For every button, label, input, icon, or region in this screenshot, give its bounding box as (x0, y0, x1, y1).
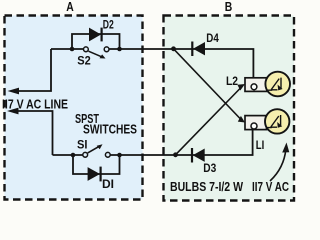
svg-text:A: A (66, 0, 74, 14)
svg-text:L2: L2 (226, 76, 238, 88)
svg-text:D4: D4 (206, 33, 219, 45)
svg-text:DI: DI (102, 179, 114, 191)
wire: top main wire (box A switch row through to box B lamp L2) (51, 49, 253, 78)
node junction: D1 branch left on bottom wire (71, 153, 76, 158)
svg-text:B: B (225, 0, 233, 14)
wire: diagonal from top node to lamp L1 (with arrowhead) (174, 49, 246, 123)
box A (dashed enclosure, light blue) (5, 16, 143, 200)
svg-text:II7 V AC LINE: II7 V AC LINE (2, 96, 68, 111)
switch S1 (SPST, lever up-right) (83, 144, 110, 157)
svg-text:S2: S2 (77, 55, 91, 67)
svg-text:SWITCHES: SWITCHES (83, 121, 137, 136)
label SPST SWITCHES (75, 111, 137, 137)
lamp L1 (base + bulb) (245, 109, 289, 133)
label BULBS 7-1/2 W 117 V AC (170, 179, 289, 194)
svg-text:LI: LI (256, 140, 264, 152)
node junction: box B top wire tap (171, 46, 176, 51)
diode D2 (anode left, cathode bar right) (89, 28, 102, 42)
diode D3 (cathode bar left, anode right) (192, 148, 205, 163)
node junction: D2 branch left on top wire (70, 47, 75, 52)
diode D1 (anode left, cathode bar right) (88, 167, 101, 182)
wire: bottom main wire (box A switch row through to box B lamp L1) (53, 129, 253, 155)
wire: diagonal from bottom node to lamp L2 (with arrowhead) (176, 84, 246, 155)
switch S2 (SPST, lever down-right) (84, 47, 110, 59)
svg-text:II7 V AC: II7 V AC (252, 179, 289, 194)
node junction: box B bottom wire tap (173, 152, 178, 157)
diode D4 (cathode bar left, anode right) (192, 42, 205, 57)
svg-text:D2: D2 (103, 19, 114, 31)
lamp L2 (base + bulb) (245, 72, 290, 97)
svg-text:BULBS 7-I/2 W: BULBS 7-I/2 W (170, 179, 244, 194)
node junction: D2 branch right on top wire (117, 47, 122, 52)
annotation arrow pointing to lamp L1 (270, 143, 289, 182)
wire: 117 VAC bottom conductor (arrow to left, riser to bottom wire) (7, 108, 53, 155)
wire: D2 branch loop (72, 34, 120, 49)
svg-text:D3: D3 (203, 163, 216, 175)
box B (dashed enclosure, light green) (164, 16, 295, 201)
svg-text:SI: SI (77, 139, 88, 151)
node junction: D1 branch right on bottom wire (117, 153, 122, 158)
wire: D1 branch loop (73, 155, 120, 174)
wire: 117 VAC top conductor (arrow to left, riser to top wire) (8, 49, 52, 94)
